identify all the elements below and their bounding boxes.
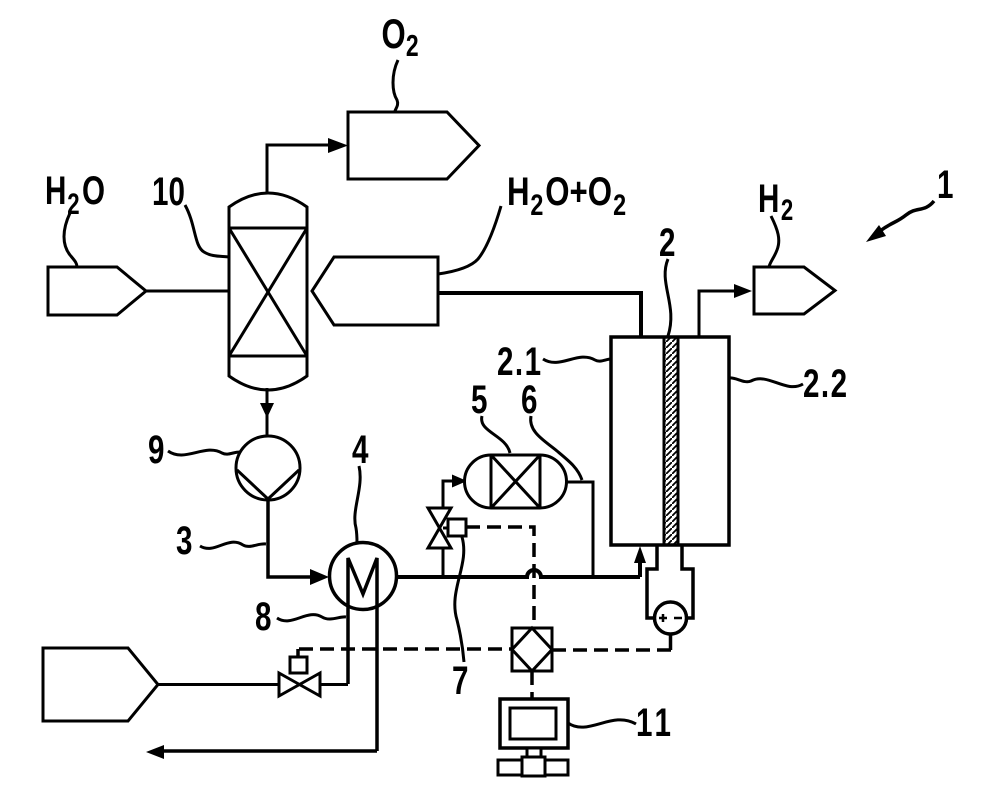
riser to vessel with valve 7 (443, 481, 452, 577)
pipe left below M (348, 558, 377, 751)
wire valve 8 to pipe (320, 683, 348, 686)
svg-text:O: O (82, 169, 105, 213)
computer 11 monitor (500, 699, 568, 748)
callout squiggle 5 (482, 416, 510, 453)
svg-text:9: 9 (148, 428, 164, 472)
dashed control line from valve 7 (466, 527, 534, 628)
svg-text:6: 6 (521, 378, 537, 422)
svg-text:2.1: 2.1 (497, 340, 543, 384)
callout squiggle 11 (568, 720, 636, 727)
label H2O (45, 169, 105, 221)
label H2 (758, 177, 793, 227)
return line with arrow (163, 749, 377, 753)
arrow 1 (880, 201, 934, 231)
callout squiggle H2O+O2 (438, 206, 501, 274)
wire pump to heat exchanger with arrow (268, 500, 310, 577)
dashed diamond to computer (530, 671, 534, 699)
column 10 (separator vessel) (229, 193, 307, 390)
svg-text:4: 4 (352, 428, 369, 472)
svg-text:8: 8 (255, 595, 271, 639)
svg-text:2: 2 (613, 188, 626, 221)
svg-text:3: 3 (176, 519, 192, 563)
svg-text:7: 7 (452, 659, 468, 703)
svg-text:5: 5 (471, 378, 487, 422)
callout squiggle 4 (355, 466, 360, 543)
valve 7 actuator square (443, 527, 448, 530)
pump 9 (236, 436, 300, 500)
flag drain (bottom left) (43, 648, 158, 721)
wire column bottom to pump with arrow (266, 388, 269, 436)
svg-text:H: H (507, 169, 530, 214)
svg-text:O: O (382, 10, 406, 57)
callout squiggle 2.1 (543, 357, 611, 362)
svg-text:2.2: 2.2 (803, 362, 849, 406)
electrolysis cell 2.1/2.2 (611, 337, 729, 545)
valve 8 actuator square (297, 668, 300, 673)
flag H2 (754, 267, 835, 314)
wire flag to valve 8 (158, 683, 279, 686)
callout squiggle 2.2 (729, 378, 803, 387)
valve 7 (vertical) (428, 508, 451, 548)
svg-text:2: 2 (781, 193, 793, 227)
callout squiggle 10 (185, 205, 229, 257)
wire H2O+O2 flag to cell top (438, 293, 641, 337)
svg-text:1: 1 (937, 163, 953, 207)
callout squiggle H2O (64, 213, 77, 267)
label O2 (382, 10, 419, 62)
wire power source to dashed line (669, 634, 673, 650)
computer stand (527, 748, 541, 760)
computer keyboard (498, 760, 568, 775)
valve 8 (horizontal) (279, 673, 320, 696)
wire H2O flag to column (146, 290, 229, 293)
power source circle + - (655, 602, 687, 634)
callout squiggle H2 (769, 216, 779, 267)
callout squiggle 2 (665, 259, 671, 336)
heat exchanger M 4 (330, 543, 397, 610)
svg-text:2: 2 (406, 28, 419, 63)
svg-text:11: 11 (636, 701, 675, 745)
callout squiggle 6 (531, 416, 582, 480)
svg-text:10: 10 (152, 170, 185, 214)
power source wires (647, 545, 693, 618)
membrane 2 (hatched) (664, 337, 678, 545)
callout squiggle 9 (168, 450, 240, 455)
svg-text:2: 2 (530, 188, 543, 221)
svg-text:H: H (45, 169, 66, 213)
wire column top to O2 flag (267, 145, 330, 194)
svg-text:H: H (758, 177, 779, 221)
pipe vessel to main line (565, 482, 593, 576)
callout squiggle 7 (455, 537, 464, 662)
label H2O+O2 (507, 169, 626, 221)
callout squiggle 8 (277, 615, 346, 621)
main line M to cell (397, 570, 640, 577)
dashed control line horizontal (298, 649, 671, 657)
callout squiggle O2 (393, 60, 398, 111)
wire cell to H2 flag (699, 291, 734, 337)
callout squiggle 3 (200, 542, 266, 548)
svg-text:2: 2 (659, 221, 675, 265)
flag H2O inlet (48, 267, 146, 315)
svg-text:O+O: O+O (545, 169, 612, 214)
flag H2O+O2 (points left) (312, 257, 438, 325)
arrow up into cell bottom (638, 560, 642, 577)
flag O2 outlet (348, 112, 479, 179)
diamond control symbol (512, 628, 552, 671)
vessel 5/6 (deionizer) (464, 455, 566, 508)
